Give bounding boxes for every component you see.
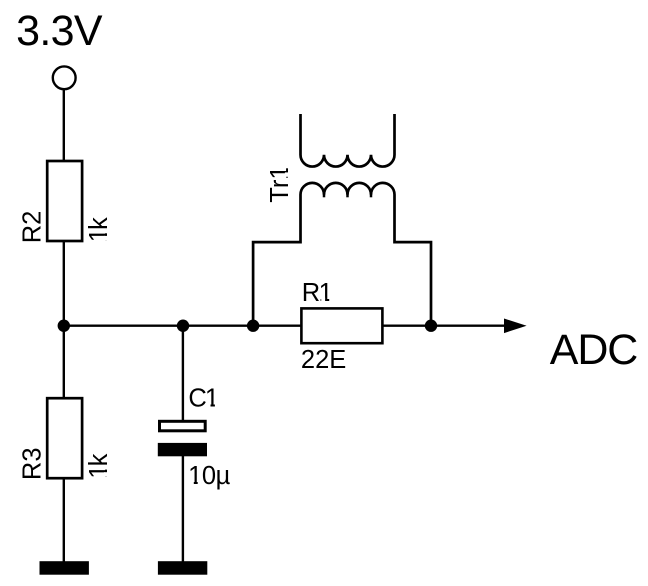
transformer Tr1 primary winding bbox=[301, 114, 395, 167]
resistor R1 bbox=[301, 308, 382, 343]
svg-text:R2: R2 bbox=[19, 211, 47, 244]
junction node A bbox=[58, 320, 70, 332]
svg-text:3.3V: 3.3V bbox=[16, 7, 103, 55]
junction node D bbox=[425, 320, 437, 332]
terminal circle (3.3V supply) bbox=[53, 66, 76, 89]
wire R2 to node A bbox=[63, 241, 65, 326]
transformer Tr1 secondary cusp ticks bbox=[323, 194, 326, 198]
svg-text:22E: 22E bbox=[301, 346, 346, 374]
svg-text:ADC: ADC bbox=[550, 326, 639, 374]
capacitor C1 negative plate bbox=[158, 443, 207, 456]
wire main bus node A to arrow bbox=[64, 325, 506, 327]
wire node B to C1 bbox=[182, 326, 184, 422]
svg-text:10µ: 10µ bbox=[188, 462, 230, 490]
capacitor C1 positive plate bbox=[160, 421, 206, 431]
junction node B bbox=[177, 320, 189, 332]
serif masks to mimic Arial-style bare "1" glyphs bbox=[104, 164, 333, 485]
resistor R3 bbox=[47, 398, 82, 478]
svg-text:C1: C1 bbox=[188, 385, 219, 413]
ground (below R3) bbox=[40, 561, 89, 575]
resistor R2 bbox=[47, 161, 82, 241]
wire C1 to ground bbox=[182, 456, 184, 562]
svg-text:R3: R3 bbox=[19, 447, 47, 480]
wire terminal to R2 bbox=[63, 89, 65, 161]
arrow head to ADC bbox=[504, 319, 527, 334]
wire node A to R3 bbox=[63, 326, 65, 399]
svg-text:1k: 1k bbox=[85, 453, 113, 478]
ground (below C1) bbox=[158, 561, 207, 575]
wire R3 to ground bbox=[63, 479, 65, 561]
transformer Tr1 secondary winding bbox=[253, 183, 431, 326]
svg-text:1k: 1k bbox=[85, 217, 113, 242]
svg-text:Tr1: Tr1 bbox=[266, 165, 294, 202]
svg-text:R1: R1 bbox=[302, 279, 333, 307]
junction node C bbox=[247, 320, 259, 332]
